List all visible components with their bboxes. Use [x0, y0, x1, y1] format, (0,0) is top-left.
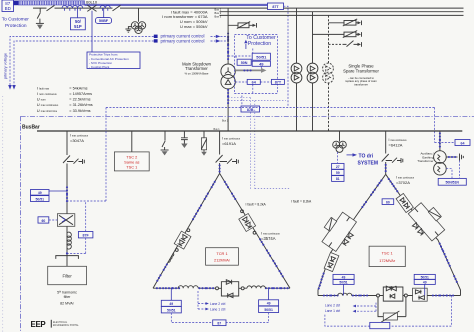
tap 3 (dashed, spare) with switch	[329, 41, 362, 47]
TSC delta left leg	[317, 174, 385, 295]
thyristor valve TSC bottom (anti-parallel)	[380, 286, 405, 301]
svg-text:= 14957Arms: = 14957Arms	[69, 92, 92, 96]
svg-text:50/51: 50/51	[421, 275, 429, 279]
node circle left of TSC valve	[377, 294, 380, 297]
svg-text:To Customer: To Customer	[2, 17, 30, 23]
thyristor valve TCR bottom (anti-parallel)	[219, 280, 242, 298]
label Lane 2 ctrl / Lane 1 ctrl (TSC)	[325, 303, 376, 313]
svg-text:= 33.9kVrms: = 33.9kVrms	[69, 109, 90, 113]
thyristor valve TSC left lower	[324, 252, 339, 271]
disconnector blade on main line	[47, 5, 55, 11]
wire dashed 87B tie line	[106, 108, 435, 143]
wire TCR feeder	[219, 131, 221, 173]
svg-text:filter: filter	[64, 295, 72, 299]
svg-text:transformer: transformer	[354, 83, 368, 87]
relay box 87B	[241, 96, 260, 113]
svg-text:Bus 1: Bus 1	[222, 120, 229, 123]
arrow up to customer protection	[244, 40, 247, 49]
relay box 49 (TCR left)	[161, 300, 181, 306]
svg-text:Bus 1: Bus 1	[215, 7, 222, 11]
svg-text:Spare Transformer: Spare Transformer	[343, 69, 379, 74]
spare phase feeder 2	[312, 12, 314, 131]
relay box 81	[332, 176, 344, 182]
svg-text:U max = 550kV: U max = 550kV	[180, 24, 208, 29]
TCR delta left leg	[153, 173, 220, 288]
varistor bypass below TSC valve	[378, 297, 406, 322]
CT clusters TSC bottom	[323, 294, 454, 296]
wire dashed PT to relays	[337, 152, 339, 163]
voltage transformer (trefoil) on busbar	[333, 131, 347, 152]
wire TSC feeder	[385, 131, 387, 174]
svg-text:87: 87	[217, 322, 221, 326]
relay box 60 (TSC)	[382, 199, 394, 205]
wire tap to filter relays	[49, 190, 67, 192]
earthing switch on TSC feeder	[386, 158, 403, 163]
earthing branch with switch and ground	[36, 8, 44, 29]
relay box 60 (filter)	[38, 217, 57, 223]
wire bus line 2	[220, 11, 464, 13]
svg-text:=3574A: =3574A	[261, 236, 276, 241]
disconnector blade 2 on main line	[113, 5, 121, 11]
wire dashed lane control taps (TCR)	[198, 291, 209, 310]
enclosure outer dotted	[2, 96, 4, 332]
wire dashed from 87T down to 87B tie	[284, 6, 289, 107]
relay box 87 (TCR)	[171, 313, 268, 326]
tap 2 with surge arrester	[313, 31, 362, 38]
label Main Stepdown Transformer	[182, 61, 212, 75]
wire filter feeder	[66, 131, 68, 266]
relay box 49 (TCR right)	[259, 300, 279, 306]
dashed box customer protection group	[235, 35, 278, 94]
wire dashed primary voltage measurement pair	[8, 36, 154, 89]
svg-text:49: 49	[259, 62, 264, 67]
svg-text:49: 49	[169, 302, 173, 306]
wire dashed TSC2 tie vertical	[68, 108, 106, 202]
relay box 64 (aux)	[435, 140, 470, 146]
svg-text:= 31.26kVrms: = 31.26kVrms	[69, 103, 92, 107]
ground (aux transformer)	[460, 154, 464, 161]
capacitor unbalance bridge	[57, 214, 74, 227]
svg-text:50/51: 50/51	[36, 197, 45, 201]
svg-text:60L10: 60L10	[86, 0, 98, 4]
svg-text:I max continuous: I max continuous	[261, 231, 281, 235]
wire LV feeder to busbar	[227, 89, 229, 131]
TSC delta right leg	[386, 174, 461, 295]
wire dashed CT tap to relays	[228, 49, 253, 57]
svg-text:81: 81	[336, 177, 340, 181]
TCR delta bottom	[153, 287, 290, 289]
svg-text:= 22.5kVrms: = 22.5kVrms	[69, 98, 90, 102]
svg-text:I fault = 8.2kA: I fault = 8.2kA	[291, 200, 312, 204]
relay box 50/51 (TCR left)	[161, 307, 181, 313]
relay box 87 (TSC, unlabeled)	[325, 296, 452, 329]
filter bank box	[48, 266, 87, 284]
reactor coil TCR bottom left	[178, 286, 198, 289]
svg-text:= 54kArms: = 54kArms	[69, 86, 87, 90]
earthing switch feeder on busbar	[161, 131, 169, 155]
svg-text:Lane 1 ctrl: Lane 1 ctrl	[210, 308, 226, 312]
svg-text:50/51: 50/51	[256, 55, 267, 60]
svg-text:49: 49	[342, 275, 346, 279]
earthing switch on filter feeder	[67, 159, 84, 164]
relay box 50/51 (TCR right)	[259, 306, 279, 312]
wire bus line 3	[220, 14, 464, 16]
disconnector on TCR feeder	[216, 155, 223, 163]
svg-text:87F: 87F	[82, 234, 89, 238]
relay box 50/51 (TSC left)	[333, 280, 354, 285]
thyristor valve group TSC left (bypass loop)	[322, 212, 357, 251]
relay box 50N/51N	[438, 161, 466, 186]
ground at grounding transformer	[125, 27, 131, 33]
svg-text:EEP: EEP	[31, 320, 46, 329]
relay box 87BD	[2, 0, 14, 12]
label 5th harmonic filter 82 MVAr	[57, 290, 77, 305]
svg-text:87T: 87T	[272, 5, 279, 9]
enclosure dash-dot busbar zone	[21, 116, 474, 332]
svg-text:- Cooling Plant: - Cooling Plant	[89, 65, 109, 69]
thyristor valve TSC right upper	[396, 193, 413, 212]
CT cluster on filter feeder	[66, 186, 68, 202]
svg-text:ENGINEERING PORTAL: ENGINEERING PORTAL	[53, 324, 79, 327]
CT cluster on ground link	[448, 156, 456, 158]
node circle right of TCR valve	[241, 287, 244, 290]
note box TSC 1 172MVAr	[369, 246, 405, 266]
relay box 87F	[78, 232, 93, 238]
label Bus 1 / Bus 2 / Bus 3	[215, 7, 222, 18]
svg-text:212MVAr: 212MVAr	[214, 258, 231, 263]
label I max continuous =3702A	[396, 175, 415, 184]
svg-text:Lane 1 ctrl: Lane 1 ctrl	[325, 309, 341, 313]
svg-text:49: 49	[267, 302, 271, 306]
CVT X symbol on line	[87, 5, 96, 52]
earthing switch on TCR feeder	[220, 159, 239, 164]
svg-text:Filter: Filter	[62, 273, 72, 278]
spare phase feeder 3 (dashed)	[328, 15, 330, 131]
svg-text:Bus 3: Bus 3	[215, 14, 222, 18]
reactor coil TSC bottom	[338, 293, 352, 295]
svg-text:Transformer: Transformer	[417, 159, 433, 163]
overhead line bus (hatched)	[19, 1, 85, 5]
svg-text:50N/51N: 50N/51N	[446, 181, 460, 185]
svg-text:primary voltage: primary voltage	[3, 53, 7, 79]
svg-text:Lane 2 ctrl: Lane 2 ctrl	[325, 304, 341, 308]
reactor coil (filter)	[67, 232, 71, 249]
wire LV busbar	[37, 130, 462, 132]
label TO Grid SYSTEM	[358, 154, 379, 167]
relay box 50/51P	[71, 18, 86, 30]
svg-text:TO dri: TO dri	[359, 154, 374, 160]
svg-text:BD: BD	[5, 6, 12, 11]
svg-text:=3702A: =3702A	[396, 180, 410, 185]
surge arrester tap on HV feeder	[228, 22, 256, 29]
CT clusters TCR bottom	[156, 287, 289, 289]
arrow power flow to customer	[236, 66, 267, 73]
svg-text:ELECTRICAL: ELECTRICAL	[53, 321, 68, 324]
disconnector on TSC feeder	[382, 154, 389, 162]
wire TSC2 stub	[131, 131, 133, 152]
svg-text:Protection: Protection	[248, 41, 271, 47]
svg-text:60: 60	[42, 219, 46, 223]
TCR delta right leg	[220, 173, 290, 288]
relay box 50/51 (TSC right)	[414, 274, 435, 295]
CT cluster pair on HV feeder	[227, 44, 229, 60]
CT cluster on TSC feeder	[385, 164, 387, 172]
wire main transformer HV feeder	[227, 8, 229, 64]
label Bus tie micro labels	[214, 120, 229, 132]
wire aux primary to ground	[446, 156, 457, 158]
svg-text:Bus 2: Bus 2	[215, 11, 222, 15]
note box TCR 1 212MVAr	[206, 248, 239, 266]
node junction dot	[66, 252, 68, 254]
relay box 87T (transformer diff)	[271, 79, 284, 84]
svg-text:=3047A: =3047A	[70, 138, 84, 143]
reactor coil TCR bottom right	[247, 286, 265, 288]
relay box 49 (TSC left)	[333, 274, 354, 295]
svg-text:27: 27	[336, 165, 340, 169]
node circle left of TCR valve	[216, 287, 219, 290]
wire dashed 87F ties	[68, 201, 86, 253]
relay box 50N	[236, 56, 251, 65]
label Auxiliary / Earthing Transformer	[417, 152, 434, 164]
label I max continuous =6191A	[222, 137, 241, 147]
wire dashed CT tie pair (TCR zone)	[228, 98, 290, 189]
node primary current control 1	[154, 35, 158, 38]
svg-text:5th harmonic: 5th harmonic	[57, 290, 77, 294]
svg-text:TSC 1: TSC 1	[126, 164, 137, 169]
relay box 49 (filter)	[31, 190, 50, 196]
relay box 50BF	[96, 18, 112, 24]
label I max continuous =3047A	[70, 134, 89, 144]
relay box 50/51	[252, 53, 270, 60]
label I max continuous =3574A (TCR)	[261, 231, 281, 241]
label substation parameter list	[37, 85, 93, 112]
svg-text:TSC 1: TSC 1	[382, 251, 393, 256]
svg-text:TCR 1: TCR 1	[216, 251, 227, 256]
capacitor (PT) to ground feeder	[181, 131, 188, 148]
svg-text:172MVAr: 172MVAr	[379, 258, 396, 263]
svg-text:Single Phase: Single Phase	[348, 63, 374, 68]
tap 1 with surge arrester	[329, 19, 362, 26]
svg-text:51P: 51P	[74, 24, 82, 29]
relay box 87T (line end)	[268, 3, 284, 10]
svg-text:primary current control: primary current control	[161, 38, 205, 43]
arrow TO system	[347, 153, 358, 156]
surge arrester feeder on busbar	[201, 131, 207, 156]
transformer spare phase A	[291, 63, 302, 83]
transformer spare phase B	[307, 63, 318, 83]
spare phase feeder 1	[296, 8, 298, 131]
label Single Phase Spare Transformer	[343, 63, 379, 86]
TSC delta bottom	[318, 295, 461, 297]
label To Customer Protection (relay group)	[246, 35, 276, 47]
wire main 500kV line	[33, 7, 464, 9]
CT cluster on TCR feeder	[219, 164, 221, 172]
svg-text:- can be connected to: - can be connected to	[348, 76, 374, 80]
CT cluster pair on LV feeder	[227, 89, 229, 104]
svg-text:=6191A: =6191A	[222, 141, 236, 146]
node circle right of TSC valve	[404, 294, 407, 297]
relay box 49 (TSC right)	[414, 280, 435, 285]
svg-text:replace any phase of main: replace any phase of main	[345, 79, 377, 83]
svg-text:=6412A: =6412A	[389, 142, 403, 147]
transformer T1 (main stepdown)	[221, 64, 235, 89]
transformer auxiliary/earthing (zigzag)	[434, 151, 447, 175]
svg-text:BusBar: BusBar	[22, 124, 40, 130]
svg-text:SYSTEM: SYSTEM	[358, 160, 379, 166]
svg-text:50BF: 50BF	[99, 19, 109, 23]
thyristor valve TSC bottom right (small)	[413, 288, 428, 301]
svg-text:87T: 87T	[275, 81, 282, 85]
CT clusters on aux feeder	[439, 132, 441, 147]
svg-text:49: 49	[38, 191, 42, 195]
relay box 49	[252, 61, 270, 66]
thyristor valve TCR right	[239, 213, 256, 231]
svg-text:% on 100MVA Base: % on 100MVA Base	[185, 71, 209, 75]
relay box 59	[332, 170, 344, 176]
wire aux transformer feeder	[439, 131, 441, 151]
svg-text:Protection: Protection	[5, 23, 27, 29]
thyristor valve group TSC right (bypass loop)	[408, 203, 444, 241]
wire dashed current control arrows	[211, 32, 230, 45]
relay box 64 (transformer)	[235, 79, 271, 93]
svg-text:50N: 50N	[241, 61, 248, 65]
svg-text:64: 64	[461, 141, 465, 145]
label I max continuous =6412A	[389, 138, 408, 147]
logo EEP	[31, 320, 80, 329]
capacitor bank bracket	[56, 256, 79, 259]
grounding transformer (3 interlaced windings)	[131, 8, 145, 33]
node primary current control 2	[154, 39, 158, 42]
svg-text:50/51: 50/51	[167, 309, 176, 313]
svg-text:50/51: 50/51	[339, 281, 347, 285]
svg-text:Lane 2 ctrl: Lane 2 ctrl	[210, 302, 226, 306]
CT group with tap to 50BF	[100, 6, 110, 18]
disconnector on filter feeder	[63, 156, 70, 164]
wire relay taps TCR bottom	[171, 288, 268, 300]
svg-text:59: 59	[336, 171, 340, 175]
svg-text:49: 49	[423, 281, 427, 285]
relay box 50/51 (filter)	[31, 196, 50, 202]
svg-text:Transformer: Transformer	[185, 66, 208, 71]
svg-text:82 MVAr: 82 MVAr	[60, 301, 75, 305]
CT group with tap to 50/51P	[62, 6, 83, 18]
relay box: protective trips list	[87, 52, 140, 69]
label line parameters	[162, 9, 208, 28]
transformer spare phase C (dashed outline)	[323, 63, 334, 83]
svg-text:I fault = 8.2kA: I fault = 8.2kA	[246, 202, 267, 206]
relay box 27	[332, 163, 344, 169]
note box TSC2	[114, 152, 149, 171]
svg-text:60: 60	[386, 200, 390, 204]
node link to line bus	[14, 1, 19, 6]
thyristor valve TCR left	[174, 231, 191, 249]
svg-text:50/51: 50/51	[264, 308, 273, 312]
